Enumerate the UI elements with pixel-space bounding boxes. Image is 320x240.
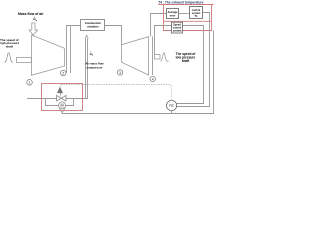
svg-text:chamber: chamber (87, 25, 100, 29)
svg-text:4: 4 (152, 77, 154, 81)
svg-text:error: error (170, 14, 176, 17)
svg-text:FIC: FIC (169, 104, 174, 108)
svg-text:T4 : The exhaust temperature: T4 : The exhaust temperature (158, 1, 204, 5)
svg-text:shaft: shaft (6, 44, 13, 48)
svg-text:mf: mf (90, 52, 94, 57)
svg-text:ma: ma (33, 17, 38, 22)
svg-text:Mass flow of air: Mass flow of air (18, 12, 44, 16)
svg-text:1: 1 (29, 81, 31, 85)
svg-text:3: 3 (119, 71, 121, 75)
svg-text:shaft: shaft (182, 59, 191, 63)
svg-text:system: system (173, 30, 182, 33)
svg-text:2: 2 (62, 71, 64, 75)
svg-text:compressor: compressor (86, 65, 103, 69)
